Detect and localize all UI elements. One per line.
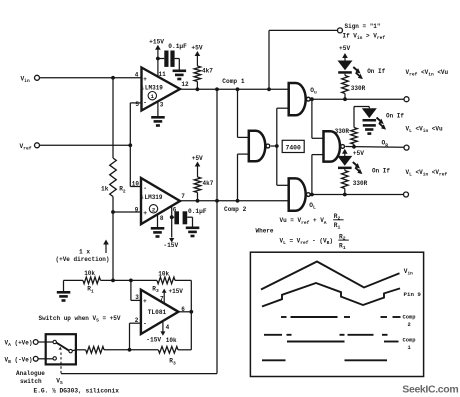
formula Vu [280,213,344,231]
svg-text:½: ½ [141,85,144,91]
svg-text:Analogue: Analogue [16,370,45,377]
node comp2 U2 branch [236,199,240,203]
svg-text:4k7: 4k7 [202,68,213,75]
wire main horizontal R1 row [64,279,158,281]
node +15V cap branch [156,57,160,61]
svg-text:+5V: +5V [353,150,364,157]
LED D3 [337,156,362,174]
svg-text:12: 12 [181,81,189,88]
svg-text:Comp 2: Comp 2 [224,206,247,213]
NAND gate U2c lower [289,178,316,210]
NAND gate U2a upper [289,83,317,115]
op-amp U3 TL081 [135,290,186,334]
switch lever [56,343,69,351]
wire OR line [345,146,404,149]
node OR LED branch [352,145,356,149]
svg-text:On If: On If [367,68,385,75]
switch contact B [53,357,56,360]
wire Vin node down to R2 [112,78,114,158]
svg-text:+15V: +15V [149,38,164,45]
label switch up when [39,315,121,324]
svg-text:1: 1 [408,345,411,351]
wire R3 to output corner [175,280,191,311]
switch common contact [69,349,76,352]
svg-text:Comp 1: Comp 1 [222,78,245,85]
wire pin3 vertical [131,280,141,300]
label VL<Vin<Vref [406,169,448,178]
svg-text:0.1µF: 0.1µF [168,43,187,50]
wire comparator2 pin6 to -15V [172,206,177,238]
output terminal OR [404,145,409,150]
wire comp1 to U2b input [238,89,249,137]
svg-text:Pin 9: Pin 9 [404,291,422,298]
svg-text:+15V: +15V [169,288,184,295]
node comp1 4k7 [196,87,200,91]
power -15V TL081 pin4 [146,321,165,344]
svg-text:R1: R1 [87,286,94,295]
svg-text:+: + [143,76,147,83]
svg-text:10k: 10k [158,271,169,278]
svg-text:R3: R3 [169,358,176,367]
svg-text:7400: 7400 [286,145,302,152]
wire R1 to ground [63,280,65,291]
svg-text:Vin: Vin [404,268,413,277]
svg-text:10k: 10k [166,337,177,344]
resistor R3 10k feedback lower [158,337,178,366]
svg-text:R2: R2 [119,186,126,195]
input terminal Vin [21,75,40,84]
wire TL081 output [178,311,191,313]
svg-text:On If: On If [386,112,404,119]
svg-text:0.1µF: 0.1µF [188,208,207,215]
resistor R3 10k positive feedback [152,271,175,294]
svg-text:Where: Where [256,228,274,235]
node pin2 junction [128,348,132,352]
capacitor 0.1uF comparator 2 [172,208,207,227]
power +15V TL081 pin7 [162,288,184,302]
output terminal sign [338,28,343,33]
wire pin 5 stub [130,102,141,104]
label where [256,228,274,235]
input terminal VA [5,340,39,349]
label VL<Vin<Vu [406,125,444,134]
svg-text:Vin: Vin [21,75,30,84]
resistor 330R LED3 [342,169,368,194]
svg-text:-: - [143,185,147,192]
svg-text:4: 4 [135,71,139,78]
wire Ou line [311,98,404,100]
NAND gate U2d output [324,131,345,161]
svg-text:5: 5 [135,101,139,108]
ground cap2 [186,227,200,238]
svg-text:330R: 330R [351,85,366,92]
wire Vref to node [40,144,131,146]
ground LED2 [363,124,376,135]
svg-text:Vref: Vref [20,143,32,152]
power +5V LED1 [339,45,350,61]
svg-text:4k7: 4k7 [203,180,214,187]
svg-text:Vref <Vin <Vu: Vref <Vin <Vu [406,69,449,78]
label analogue switch [16,370,45,385]
label On If row2 [386,112,404,119]
waveform Vin [261,262,413,290]
svg-text:VB (-Ve): VB (-Ve) [5,356,33,365]
wire U2b output vertical [276,108,278,185]
svg-text:Ou: Ou [310,87,317,96]
ground cap1 [173,70,187,81]
svg-text:E.G. ½ DG303, siliconix: E.G. ½ DG303, siliconix [34,388,120,395]
svg-text:Comp: Comp [403,315,416,321]
svg-text:VL = Vref - (VB): VL = Vref - (VB) [280,237,333,246]
svg-text:330R: 330R [335,128,350,135]
waveform Comp 2 trace [281,315,415,328]
svg-text:If Vin > Vref: If Vin > Vref [343,32,386,41]
wire U2b output [271,145,277,147]
capacitor 0.1uF comparator 1 [158,43,187,70]
wire pin2 vertical [130,323,141,350]
svg-text:8: 8 [160,215,164,222]
power +15V comparator 1 [149,38,164,77]
node pin6 cap branch [170,215,174,219]
node comp1 VS branch [215,87,219,91]
label 1x +Ve direction [56,249,110,264]
resistor switch series [76,347,129,354]
wire OL line [311,194,403,196]
svg-text:R3: R3 [152,285,159,294]
svg-text:½: ½ [140,195,143,201]
node comp2 VS branch [215,199,219,203]
node pin 9 junction [111,210,115,214]
svg-text:Comp: Comp [403,338,416,344]
wire OL to U2d input [312,155,324,195]
svg-text:VA (+Ve): VA (+Ve) [5,340,33,349]
power +5V pullup comparator 1 [191,44,202,66]
svg-text:LM319: LM319 [145,85,163,92]
wire 4k7 to comp2 line [197,193,199,201]
wire feedback vertical down [112,212,114,280]
node TL081 output [189,310,193,314]
ground comparator1 pin3 [151,116,165,127]
arrow +Ve direction [103,240,109,254]
waveform Pin 9 [262,283,421,307]
waveform box [250,252,423,376]
power -15V comparator 2 [163,238,178,249]
label sign [343,23,386,41]
label DG303 [34,388,120,395]
svg-text:On If: On If [372,168,390,175]
wire pin 9 stub [113,211,141,213]
label Vref<Vin<Vu [406,69,449,78]
waveform Comp 1 trace [264,335,415,351]
svg-text:10: 10 [132,180,140,187]
svg-text:3: 3 [160,102,164,109]
svg-text:R1: R1 [339,243,346,251]
svg-text:+5V: +5V [192,155,203,162]
label 7400 [282,140,304,152]
svg-text:1k: 1k [101,185,109,192]
LED D2 [362,108,386,129]
svg-text:-: - [143,99,147,106]
node feedback junction [111,279,115,283]
svg-text:2: 2 [408,322,411,328]
wire VA to switch [38,341,53,343]
svg-text:-15V: -15V [163,242,178,249]
input terminal Vref [20,143,40,152]
wire comparator2 pin8 [158,214,164,227]
wire comp2 to U2b input [238,154,249,201]
label OR [382,140,389,149]
svg-text:+: + [143,298,147,305]
svg-text:+5V: +5V [339,45,350,52]
wire VS control dashed [60,353,62,374]
switch contact A [53,340,56,343]
resistor R1 10k [83,270,101,294]
svg-text:330R: 330R [353,180,368,187]
node Vin branch [111,76,115,80]
wire Comp 1 output line [180,78,289,89]
wire pin 10 stub [130,186,141,188]
svg-text:Sign = "1": Sign = "1" [345,23,381,30]
waveform OR trace [262,359,387,361]
wire Comp 2 output line [180,201,289,213]
wire output down to R3b [178,312,191,350]
svg-text:+: + [143,210,147,217]
node comp2 4k7 [196,199,200,203]
wire sign output branch [269,30,338,89]
svg-text:VL <Vin <Vref: VL <Vin <Vref [406,169,448,178]
resistor R2 1k [101,158,126,197]
wire U2a input lower [277,107,289,109]
svg-text:10k: 10k [84,270,95,277]
svg-text:R1: R1 [334,222,341,230]
svg-text:switch: switch [20,378,42,385]
analogue switch box [46,334,76,364]
svg-text:9: 9 [135,206,139,213]
wire R3b to pin2 node [130,349,159,351]
resistor 4k7 comparator 2 [194,177,214,193]
wire R2 to pin 9 node [112,197,114,213]
svg-text:7: 7 [160,295,164,302]
wire 4k7 to comp1 line [196,82,198,90]
output terminal OL [404,192,409,197]
input terminal VB [5,356,39,365]
svg-text:LM319: LM319 [145,194,163,201]
svg-text:3: 3 [135,294,139,301]
NAND gate U2b middle [249,131,270,162]
op-amp U1a LM319 comparator 1 [135,68,189,111]
svg-text:OL: OL [309,202,316,211]
label On If row3 [372,168,390,175]
label On If row1 [367,68,385,75]
wire comparator1 pin3 [158,101,164,116]
output terminal Ou [404,97,409,102]
svg-text:-15V: -15V [146,337,161,344]
svg-text:7: 7 [181,193,185,200]
node Ou LED branch [343,97,347,101]
svg-text:VS: VS [56,377,63,386]
node U2b output [275,144,279,148]
svg-text:4: 4 [166,324,170,331]
svg-text:TL081: TL081 [148,309,167,316]
node OL U2d branch [310,193,314,197]
power +5V pullup comparator 2 [192,155,203,177]
resistor 4k7 comparator 1 [194,66,213,82]
svg-text:SeekIC.com: SeekIC.com [402,383,458,395]
resistor 330R LED1 [342,74,366,100]
wire VB to switch [38,358,53,360]
node OL LED branch [343,193,347,197]
wire Ou to U2d input [312,99,324,138]
svg-text:-: - [143,321,147,328]
node Ou U2d branch [310,97,314,101]
ground comparator2 pin8 [151,227,165,238]
power +5V LED3 [342,149,364,157]
node comp1 sign branch [267,87,271,91]
wire comp join vertical VS [216,89,218,373]
ground R1 [57,291,71,302]
wire Vin to comparator 1 pin 4 [40,77,142,79]
wire comparator1 pin5 / comparator2 pin10 vertical [129,103,131,187]
svg-text:(+Ve direction): (+Ve direction) [56,256,110,263]
node comp1 U2 branch [236,87,240,91]
formula VL [280,233,349,251]
label VS [56,377,63,386]
watermark SeekIC.com [402,383,458,395]
svg-text:1 x: 1 x [79,249,90,256]
op-amp U1b LM319 comparator 2 [132,178,186,224]
svg-text:Vu = Vref + VA: Vu = Vref + VA [280,217,327,226]
svg-text:+5V: +5V [191,44,202,51]
wire U2c input upper [277,184,289,186]
svg-text:11: 11 [159,71,167,78]
node pin3 junction [129,279,133,283]
LED D1 [338,61,363,80]
svg-text:Switch up when VS = +5V: Switch up when VS = +5V [39,315,121,324]
svg-text:VL <Vin <Vu: VL <Vin <Vu [406,125,444,134]
resistor 330R LED2 [335,107,370,147]
wire VS horizontal run [61,373,217,375]
node Vref junction [128,143,132,147]
